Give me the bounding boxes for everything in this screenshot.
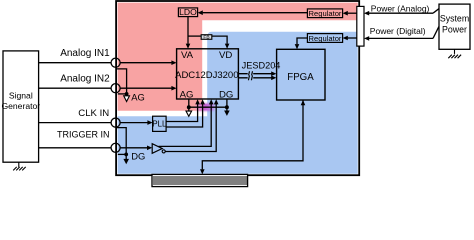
svg-text:Analog IN1: Analog IN1 — [60, 48, 110, 59]
svg-text:System: System — [440, 14, 469, 24]
svg-text:FB: FB — [203, 34, 209, 40]
ground AG (input shields) — [124, 96, 130, 102]
wire: ADC DG pin to ground — [226, 99, 228, 107]
wire: power connector to digital regulator — [343, 36, 357, 41]
svg-text:CLK IN: CLK IN — [78, 108, 109, 119]
connector Analog IN2 — [111, 84, 120, 93]
connector TRIGGER IN — [111, 143, 120, 152]
svg-text:DG: DG — [219, 90, 233, 101]
wire: signal generator to TRIGGER IN — [39, 147, 111, 149]
wire: signal generator to Analog IN1 — [39, 62, 111, 64]
wire: TRIGGER IN shield to DG — [118, 153, 126, 155]
svg-text:JESD204: JESD204 — [242, 60, 281, 70]
analog power domain (red region) — [118, 3, 358, 111]
wire: ADC AG pin to ground — [188, 99, 190, 107]
system power supply — [439, 4, 470, 49]
wire: system power to board (digital) — [364, 27, 439, 41]
wire: JESD204 lane bus 2 — [238, 75, 276, 80]
wire: signal generator to Analog IN2 — [39, 87, 111, 89]
wire: CLK IN shield to DG — [117, 128, 127, 155]
svg-text:VD: VD — [219, 50, 232, 61]
wire: Analog IN1 to ADC VA input — [120, 60, 176, 65]
svg-text:FPGA: FPGA — [287, 72, 314, 83]
wire: AG to DG ground tie — [189, 106, 227, 108]
ground DG (ADC) — [224, 107, 230, 116]
svg-text:Generator: Generator — [1, 101, 40, 111]
wire: LDO output to VA — [186, 17, 191, 49]
chassis ground (system power) — [448, 49, 461, 58]
svg-text:ADC12DJ3200: ADC12DJ3200 — [175, 70, 238, 81]
junction: input shields AG — [125, 92, 129, 96]
FPGA U2 — [277, 49, 325, 100]
ground AG (ADC) — [186, 107, 192, 116]
ground DG (clock/trigger shields) — [123, 154, 129, 164]
wire: PLL clock output 2 to ADC — [166, 99, 205, 127]
buffer (trigger) — [152, 144, 165, 154]
svg-text:Power: Power — [442, 25, 467, 35]
wire: LDO output to ferrite bead — [188, 35, 201, 37]
board outline — [116, 1, 359, 175]
card edge connector — [152, 174, 248, 186]
connector Analog IN1 — [111, 58, 120, 67]
wire: ferrite bead to VD — [212, 36, 230, 49]
signal generator — [1, 51, 40, 162]
junction: AG node — [187, 105, 191, 109]
chassis ground (signal generator) — [13, 162, 26, 170]
wire: buffer output complement to ADC — [165, 99, 218, 151]
wire: PLL clock output 1 to ADC — [166, 99, 200, 121]
ferrite bead FB — [201, 34, 212, 40]
svg-text:Regulator: Regulator — [309, 34, 342, 43]
svg-text:PLL: PLL — [152, 119, 167, 128]
svg-text:AG: AG — [180, 90, 194, 101]
wire: digital regulator to FPGA — [295, 38, 308, 49]
svg-text:VA: VA — [181, 50, 194, 61]
junction: DG node — [225, 105, 229, 109]
junction: clock/trigger shields DG — [124, 153, 128, 157]
wire: Analog IN2 to ADC input — [120, 86, 176, 91]
svg-text:LDO: LDO — [179, 7, 197, 17]
PLL — [152, 116, 167, 131]
wire: power connector to analog regulator — [343, 11, 357, 16]
wire: FPGA to card edge connector — [200, 100, 305, 174]
svg-text:DG: DG — [131, 151, 145, 162]
ADC U1 ADC12DJ3200 — [175, 49, 238, 101]
regulator (analog) — [307, 9, 342, 18]
wire: CLK IN to PLL — [120, 120, 152, 125]
svg-text:Power (Digital): Power (Digital) — [370, 26, 426, 36]
svg-text:Signal: Signal — [9, 90, 33, 100]
wire: TRIGGER IN to buffer — [120, 146, 152, 151]
LDO — [178, 7, 197, 17]
regulator (digital) — [307, 34, 342, 43]
wire: analog regulator to LDO — [198, 10, 308, 15]
digital power domain (blue region) — [118, 32, 358, 174]
svg-text:TRIGGER IN: TRIGGER IN — [57, 129, 110, 139]
svg-text:Regulator: Regulator — [309, 9, 342, 18]
wire: Analog IN1 shield to AG — [117, 69, 127, 94]
power inlet connector — [357, 6, 364, 46]
wire: JESD204 lane bus 1 — [238, 71, 276, 76]
wire: Analog IN2 shield to AG — [118, 93, 127, 95]
connector CLK IN — [111, 118, 120, 127]
wire: system power to board (analog) — [364, 9, 439, 16]
svg-text:AG: AG — [131, 92, 145, 103]
wire: buffer output true to ADC — [159, 99, 214, 146]
svg-text:Analog IN2: Analog IN2 — [60, 74, 110, 85]
wire: signal generator to CLK IN — [39, 122, 111, 124]
svg-text:Power (Analog): Power (Analog) — [371, 3, 430, 13]
ground tie highlight (purple overlap) — [196, 103, 214, 110]
